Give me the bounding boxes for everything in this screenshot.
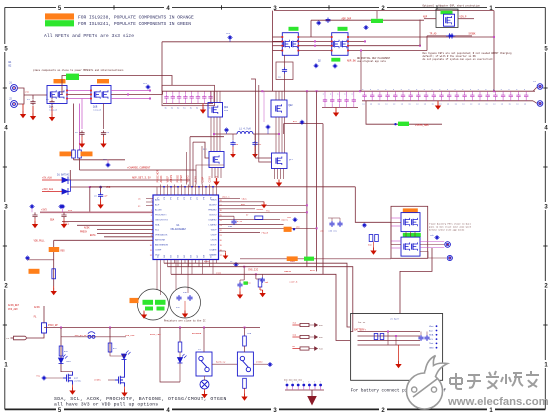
pale sense vertical bbox=[263, 91, 265, 122]
wire drop below Q1B right bbox=[103, 104, 105, 130]
svg-text:3x3: 3x3 bbox=[224, 109, 229, 112]
snubber stem down bbox=[284, 73, 286, 91]
ground branch1 bbox=[72, 388, 74, 391]
green option small bbox=[243, 281, 248, 284]
svg-text:QL2: QL2 bbox=[289, 158, 294, 161]
gate wire LGATE1 bbox=[193, 142, 209, 158]
NFET Q5 OVP bbox=[444, 14, 455, 26]
long vertical x316 bbox=[316, 91, 318, 271]
svg-text:1u: 1u bbox=[501, 103, 503, 106]
resistor pair battery sense bbox=[369, 235, 373, 242]
svg-text:GND: GND bbox=[429, 348, 434, 350]
IC bottom pin wires bbox=[163, 260, 165, 264]
NFET QL2 low side right bbox=[272, 153, 288, 169]
ACIN sense wire bbox=[80, 169, 197, 171]
resistor R30 horizontal bbox=[255, 216, 263, 219]
resistor R11 bbox=[78, 150, 82, 158]
svg-text:do not populate if system can: do not populate if system can open on ov… bbox=[423, 58, 494, 61]
wire branch1 to FET bbox=[60, 371, 62, 374]
wire above IC long run bbox=[90, 186, 356, 188]
ground QL2 bbox=[278, 180, 280, 183]
bus wires Q2 left bbox=[273, 36, 283, 38]
inductor L1 bbox=[237, 131, 253, 134]
battery FET block outline bbox=[391, 206, 428, 258]
battery connector resistors bbox=[374, 334, 378, 340]
ground mid cluster 2 bbox=[262, 290, 264, 293]
svg-text:3V3_AUX: 3V3_AUX bbox=[8, 308, 18, 311]
svg-text:SYSBK: SYSBK bbox=[469, 33, 477, 36]
svg-text:1u: 1u bbox=[209, 108, 211, 110]
svg-text:BATGONE: BATGONE bbox=[192, 332, 202, 335]
fuse F1 bbox=[42, 323, 47, 333]
green option boxes in ellipse 1 bbox=[143, 300, 154, 305]
PFET Q3 bbox=[332, 33, 348, 56]
svg-text:3V3_pu_sel: 3V3_pu_sel bbox=[75, 334, 89, 337]
gate risers to IC top bbox=[189, 137, 191, 187]
cap bank1 outline bbox=[162, 85, 215, 105]
ground pullup branch bbox=[53, 288, 55, 291]
wires QL2 source down bbox=[274, 169, 276, 180]
green label VSYS bbox=[398, 122, 409, 126]
green label in OVP box bbox=[441, 11, 453, 15]
long wire run B below IC bbox=[168, 267, 353, 332]
ground cap bank main bbox=[437, 103, 439, 106]
svg-text:kelvin sense (see app note): kelvin sense (see app note) bbox=[429, 229, 464, 232]
branch1 LED D2 bbox=[59, 355, 68, 364]
test point TP7 bbox=[317, 22, 320, 25]
svg-text:2N7002: 2N7002 bbox=[74, 380, 82, 383]
test point TP5 bbox=[315, 64, 318, 67]
phase wires left bbox=[210, 117, 212, 152]
green option box top bbox=[371, 19, 383, 23]
svg-text:CSIP: CSIP bbox=[202, 176, 205, 182]
svg-text:ACOK_LED: ACOK_LED bbox=[150, 333, 161, 336]
svg-text:CSOP: CSOP bbox=[211, 235, 218, 237]
svg-text:FOR ISL9241, POPULATE COMPONEN: FOR ISL9241, POPULATE COMPONENTS IN GREE… bbox=[78, 21, 191, 27]
ground IC bottom right bbox=[225, 253, 227, 256]
svg-text:1u: 1u bbox=[202, 108, 204, 110]
orange label QB1 bbox=[403, 208, 418, 212]
IC top pin junction dots bbox=[163, 186, 165, 188]
svg-text:1u: 1u bbox=[524, 103, 526, 106]
jumper wire between branches bbox=[61, 336, 126, 338]
svg-text:1u: 1u bbox=[378, 103, 380, 106]
svg-text:LGATE2: LGATE2 bbox=[209, 224, 218, 227]
wire input filter loop bbox=[62, 76, 172, 96]
wire S2 top resistor bbox=[244, 328, 246, 337]
ground at C1 bbox=[32, 113, 34, 116]
svg-text:TP4: TP4 bbox=[226, 32, 231, 35]
svg-text:AMON/BMON: AMON/BMON bbox=[155, 244, 169, 247]
svg-text:SiS443: SiS443 bbox=[93, 109, 102, 112]
svg-text:1u: 1u bbox=[393, 103, 395, 106]
branch2 NFET Q11 bbox=[115, 360, 125, 387]
svg-text:12: 12 bbox=[150, 255, 152, 257]
svg-text:21: 21 bbox=[220, 235, 222, 237]
svg-text:CSOP: CSOP bbox=[204, 260, 210, 263]
svg-text:ADP_SW: ADP_SW bbox=[347, 59, 356, 62]
svg-text:GND GND GND GND: GND GND GND GND bbox=[284, 378, 303, 381]
svg-text:OTG_LED: OTG_LED bbox=[125, 334, 135, 337]
IC U1 bottom pin names bbox=[158, 254, 213, 257]
svg-text:all have 3V3 or VDD pull up op: all have 3V3 or VDD pull up options bbox=[54, 401, 158, 407]
wire branch3 return bbox=[160, 328, 180, 383]
BGATE wire to battery FET bbox=[240, 258, 391, 260]
op IC U1 ISL9238 bbox=[153, 195, 219, 260]
test point row wire bbox=[285, 389, 324, 391]
ground battery sense bbox=[373, 248, 375, 251]
svg-text:1u: 1u bbox=[447, 103, 449, 106]
svg-text:1u: 1u bbox=[183, 108, 185, 110]
wire fuse up bbox=[43, 306, 45, 323]
snubber stem up bbox=[284, 55, 286, 67]
svg-text:3: 3 bbox=[151, 210, 152, 212]
test point TP12 bbox=[294, 218, 297, 221]
IC pin numbers left bbox=[150, 200, 152, 257]
input cap bank capacitors bbox=[164, 95, 168, 100]
wires QL1 source down bbox=[211, 168, 213, 179]
svg-text:5: 5 bbox=[151, 220, 152, 222]
svg-text:SiS443: SiS443 bbox=[49, 109, 58, 112]
svg-text:C30: C30 bbox=[228, 225, 233, 228]
svg-text:OTG5V: OTG5V bbox=[256, 361, 263, 364]
wire plug to fuse bbox=[26, 333, 44, 338]
test point TP16 bbox=[365, 26, 368, 29]
svg-text:CSON: CSON bbox=[216, 271, 222, 274]
wire J1 to bus bbox=[17, 88, 24, 95]
labels below cap bank1 bbox=[165, 108, 211, 110]
battery connector caps bbox=[418, 335, 423, 341]
wires QH2 drain to bus bbox=[275, 91, 277, 100]
svg-text:All NFETs and PFETs are 3x3 si: All NFETs and PFETs are 3x3 size bbox=[44, 33, 134, 39]
orange label above Q1B bbox=[97, 79, 109, 83]
IC left wire SDA bbox=[62, 221, 153, 223]
option ellipse 2 bbox=[170, 287, 201, 318]
svg-text:+5V_ALW: +5V_ALW bbox=[42, 177, 52, 180]
svg-text:VDD_PULL: VDD_PULL bbox=[34, 240, 46, 243]
svg-text:place components as close to p: place components as close to power MOSFE… bbox=[33, 69, 124, 72]
svg-text:VIN: VIN bbox=[25, 91, 30, 94]
svg-text:VREG/ACOK: VREG/ACOK bbox=[155, 234, 168, 237]
test point TP3 on 3V3 rail bbox=[61, 205, 64, 208]
phase node left horizontal bbox=[214, 133, 237, 135]
svg-text:AMON: AMON bbox=[170, 175, 173, 183]
resistor below S2 bbox=[243, 378, 247, 388]
svg-text:1u: 1u bbox=[362, 103, 364, 106]
svg-text:www.elecfans.com: www.elecfans.com bbox=[447, 396, 549, 408]
ground snubber right bbox=[254, 151, 256, 154]
svg-text:ACIN: ACIN bbox=[34, 306, 40, 309]
orange option box BG bbox=[287, 256, 298, 261]
legend orange swatch bbox=[45, 13, 74, 19]
svg-text:ACP: ACP bbox=[155, 204, 160, 207]
top distribution wire bbox=[162, 41, 282, 43]
ground arrow test point row bbox=[311, 390, 313, 396]
IC left wire BATGONE bbox=[104, 236, 153, 238]
svg-text:BGATE: BGATE bbox=[284, 270, 291, 273]
svg-text:BOOT: BOOT bbox=[211, 245, 218, 247]
svg-text:QH2: QH2 bbox=[289, 104, 294, 107]
svg-text:VDDP: VDDP bbox=[211, 230, 217, 232]
test point TP13 bbox=[235, 263, 238, 266]
svg-text:CSON: CSON bbox=[210, 240, 217, 242]
wire boot drop bbox=[283, 124, 285, 134]
pullup option branch bbox=[53, 240, 55, 286]
extra gate riser B bbox=[201, 146, 203, 185]
svg-text:P3V3_UP: P3V3_UP bbox=[48, 324, 58, 327]
system cap bank main rail bbox=[362, 100, 533, 102]
wire to D1 anode 2 bbox=[42, 191, 62, 193]
wire QB2 bottom to connector bbox=[420, 252, 446, 259]
svg-text:BATG_SW: BATG_SW bbox=[216, 361, 226, 364]
resistor R33 bbox=[255, 274, 257, 279]
wire sense tap to OVP row bbox=[311, 19, 424, 21]
svg-text:BATG: BATG bbox=[90, 234, 96, 237]
resistor R10 bbox=[72, 150, 76, 158]
ground ellipse 1 bbox=[143, 312, 145, 315]
svg-text:BATP: BATP bbox=[310, 269, 316, 272]
svg-text:TP1: TP1 bbox=[143, 82, 148, 85]
svg-text:20: 20 bbox=[220, 240, 222, 242]
test point TP6 bbox=[334, 65, 337, 68]
wire vbat riser bbox=[400, 248, 432, 314]
svg-text:J5 BATT: J5 BATT bbox=[390, 318, 400, 321]
dual schottky diode D1 bbox=[62, 177, 71, 196]
IC left top stubs bbox=[146, 198, 153, 200]
svg-text:1u: 1u bbox=[432, 103, 434, 106]
test point TP1 on input bus bbox=[147, 86, 150, 89]
svg-text:11: 11 bbox=[150, 250, 152, 252]
svg-text:UGATE2: UGATE2 bbox=[208, 219, 217, 222]
svg-text:+3V3_ALW: +3V3_ALW bbox=[42, 188, 54, 191]
svg-text:1u: 1u bbox=[370, 103, 372, 106]
IC pin numbers right bbox=[220, 200, 222, 257]
svg-text:1uF: 1uF bbox=[104, 195, 109, 198]
switch S2 box bbox=[237, 352, 253, 376]
NFET QL1 low side left bbox=[209, 152, 224, 168]
svg-text:VIN_P: VIN_P bbox=[460, 15, 468, 18]
branch2 vertical bbox=[109, 328, 111, 354]
svg-text:1u: 1u bbox=[493, 103, 495, 106]
svg-text:ACDRV: ACDRV bbox=[209, 204, 217, 207]
battery connector box outline bbox=[351, 314, 443, 381]
svg-text:3V3: 3V3 bbox=[68, 209, 73, 212]
green label QB2 bbox=[403, 233, 421, 237]
test point right of S2 bbox=[269, 363, 272, 366]
svg-text:BOOT2: BOOT2 bbox=[209, 215, 217, 217]
boot wire right bbox=[284, 123, 323, 125]
components left of battery FETs bbox=[329, 221, 334, 227]
option ellipse 1 bbox=[138, 289, 169, 320]
DC plug connector P1 bbox=[11, 336, 27, 340]
green label above Q3 bbox=[338, 27, 348, 31]
wire between switches bbox=[212, 363, 237, 365]
PFET Q1B input switch bbox=[91, 86, 111, 104]
svg-text:TP2: TP2 bbox=[103, 158, 108, 161]
mid cluster below IC right bbox=[243, 267, 245, 280]
wires QH1 drain to bus bbox=[210, 91, 212, 102]
branch1 resistor R70 bbox=[59, 346, 63, 356]
branch1 NFET Q10 bbox=[63, 372, 73, 385]
wire vertical right x494 bbox=[493, 11, 495, 92]
capacitor below IC bbox=[260, 277, 265, 283]
bus wires between Q1A Q1B bbox=[67, 90, 91, 92]
wire vertical bus x272.5 bbox=[272, 11, 274, 92]
long vertical x323 bbox=[322, 124, 324, 275]
3V3 rail thick bus bbox=[40, 211, 153, 213]
orange option box RS2 bbox=[29, 269, 40, 274]
svg-text:PROCH: PROCH bbox=[80, 230, 88, 233]
VDD node junction bbox=[99, 186, 102, 189]
top horizontal wire to OVP bbox=[274, 10, 494, 12]
svg-text:26: 26 bbox=[220, 210, 222, 212]
test point TP2 bbox=[107, 164, 110, 167]
svg-text:D1 BAT54C: D1 BAT54C bbox=[57, 174, 70, 177]
connector J2 bbox=[11, 101, 18, 108]
wires QB right to connectors bbox=[420, 241, 444, 243]
OVP box bbox=[436, 9, 458, 27]
svg-text:SDA: SDA bbox=[50, 219, 55, 222]
capacitor on OVP lower wire bbox=[446, 33, 455, 38]
orange option box ellipse bbox=[130, 298, 139, 303]
svg-text:2: 2 bbox=[151, 205, 152, 207]
svg-text:17: 17 bbox=[220, 255, 222, 257]
svg-text:C50 C51: C50 C51 bbox=[329, 230, 338, 233]
wires between QB1 QB2 bbox=[405, 232, 407, 238]
branch1 vertical bbox=[60, 328, 62, 373]
wire OVP right bbox=[458, 18, 474, 20]
svg-text:1u: 1u bbox=[478, 103, 480, 106]
test point TP14 bbox=[436, 236, 439, 239]
svg-text:ADP_OVP: ADP_OVP bbox=[342, 18, 352, 21]
svg-text:VSYS: VSYS bbox=[216, 175, 219, 182]
svg-text:Optional - Adapter OVP, short: Optional - Adapter OVP, short protection bbox=[423, 4, 481, 7]
ground at J1 bbox=[22, 111, 24, 114]
capacitor on sense tap bbox=[326, 17, 331, 23]
system cap bank left group caps bbox=[323, 98, 327, 103]
svg-text:1u: 1u bbox=[171, 108, 173, 110]
wire bus rise to cap bank bbox=[162, 91, 164, 94]
green label above Q2 bbox=[289, 27, 299, 31]
green label below Q3 bbox=[331, 58, 340, 62]
bus wires right of Q1B bbox=[111, 90, 150, 92]
boot wire to bridge bbox=[196, 165, 224, 170]
IC left wire ACOK bbox=[97, 229, 153, 231]
ground mid cluster 1 bbox=[239, 292, 241, 295]
NFET QH1 high side left bbox=[208, 103, 223, 118]
test point TP8 phase left bbox=[225, 129, 228, 132]
wires QB left bbox=[391, 217, 401, 219]
gate wires right FETs bbox=[251, 79, 272, 158]
svg-text:1u: 1u bbox=[455, 103, 457, 106]
svg-text:TP_AD: TP_AD bbox=[430, 33, 438, 36]
ground at cap bank bbox=[202, 107, 204, 110]
gate wire UGATE1 bbox=[190, 136, 224, 138]
orange option box RS1 bbox=[49, 247, 60, 252]
svg-text:PHASE2: PHASE2 bbox=[208, 209, 217, 212]
test point TP15 bbox=[363, 224, 366, 227]
svg-text:4: 4 bbox=[151, 215, 152, 217]
svg-text:OTGEN: OTGEN bbox=[94, 378, 101, 381]
snubber R C on phase right bbox=[254, 134, 256, 140]
green option box BG bbox=[304, 257, 314, 261]
input cap bank rail bbox=[163, 103, 213, 105]
IC U1 left pin names bbox=[155, 199, 169, 257]
wire D1 cathode to VDD node bbox=[71, 186, 90, 188]
svg-text:VBUS: VBUS bbox=[242, 197, 248, 200]
ground battery box bbox=[398, 361, 400, 364]
wire branch3 down bbox=[179, 352, 181, 358]
resistor R20 bbox=[52, 269, 56, 279]
main power bus VADP bbox=[162, 90, 535, 92]
IC U1 right pin names bbox=[208, 200, 217, 257]
battery connector wires bbox=[358, 331, 421, 333]
connector J1 bbox=[11, 85, 18, 92]
svg-text:1u: 1u bbox=[462, 103, 464, 106]
svg-text:+VSYS_SNS: +VSYS_SNS bbox=[415, 124, 429, 127]
ground C4 bbox=[103, 141, 105, 144]
svg-text:19: 19 bbox=[220, 245, 222, 247]
ground below motor bbox=[204, 391, 206, 394]
svg-text:CMOUT/OTG: CMOUT/OTG bbox=[155, 220, 168, 222]
test point TP11 bbox=[26, 257, 29, 260]
svg-text:22: 22 bbox=[220, 230, 222, 232]
svg-text:Vbat: Vbat bbox=[429, 325, 434, 328]
svg-text:1u: 1u bbox=[424, 103, 426, 106]
svg-text:24: 24 bbox=[220, 220, 222, 222]
connector VOUT2 bbox=[537, 101, 543, 107]
pullup source resistor row 1 bbox=[292, 324, 300, 326]
svg-text:+3V3: +3V3 bbox=[41, 208, 47, 211]
svg-text:PHASE: PHASE bbox=[262, 232, 269, 235]
ground branch2 bbox=[124, 390, 126, 393]
long vertical x307 bbox=[306, 91, 308, 267]
svg-text:Ibat: Ibat bbox=[429, 329, 433, 332]
svg-text:1u: 1u bbox=[165, 108, 167, 110]
OVP lower wire bbox=[427, 35, 472, 37]
svg-text:VREG: VREG bbox=[187, 175, 190, 182]
watermark stamp bbox=[407, 356, 448, 410]
svg-text:1u: 1u bbox=[408, 103, 410, 106]
ground C3 bbox=[81, 141, 83, 144]
green option box L2 bbox=[66, 74, 79, 80]
IC U1 top pin names bbox=[158, 196, 213, 199]
orange option box R11 bbox=[81, 152, 93, 157]
svg-text:SYS_I2C: SYS_I2C bbox=[248, 269, 259, 272]
long wire run A below IC bbox=[164, 263, 350, 327]
svg-text:1u: 1u bbox=[439, 103, 441, 106]
svg-text:1u: 1u bbox=[190, 108, 192, 110]
pullup source resistor row 3 bbox=[292, 348, 300, 350]
svg-text:SDA, SCL, ACOK, PROCHOT#, BATG: SDA, SCL, ACOK, PROCHOT#, BATGONE, OTG5G… bbox=[54, 396, 227, 402]
svg-text:1u: 1u bbox=[385, 103, 387, 106]
capacitor C3 below Q1B bbox=[79, 131, 84, 137]
IC right pin wires bbox=[219, 197, 241, 199]
test point TP9 phase right bbox=[267, 126, 270, 129]
connector VOUT1 bbox=[537, 84, 543, 90]
svg-text:U1: U1 bbox=[176, 224, 180, 227]
ground below S2 bbox=[244, 394, 246, 397]
svg-text:9: 9 bbox=[151, 240, 152, 242]
IC left wire SCL bbox=[77, 224, 153, 226]
wire drop below Q1B left bbox=[81, 99, 83, 130]
branch2 resistor R71 bbox=[108, 343, 112, 352]
svg-text:LED1: LED1 bbox=[66, 360, 72, 363]
svg-text:ACLIM: ACLIM bbox=[155, 209, 162, 212]
input bypass capacitor C2 bbox=[49, 100, 54, 106]
svg-text:ADP: ADP bbox=[423, 15, 428, 18]
extra gate riser A bbox=[186, 152, 188, 185]
